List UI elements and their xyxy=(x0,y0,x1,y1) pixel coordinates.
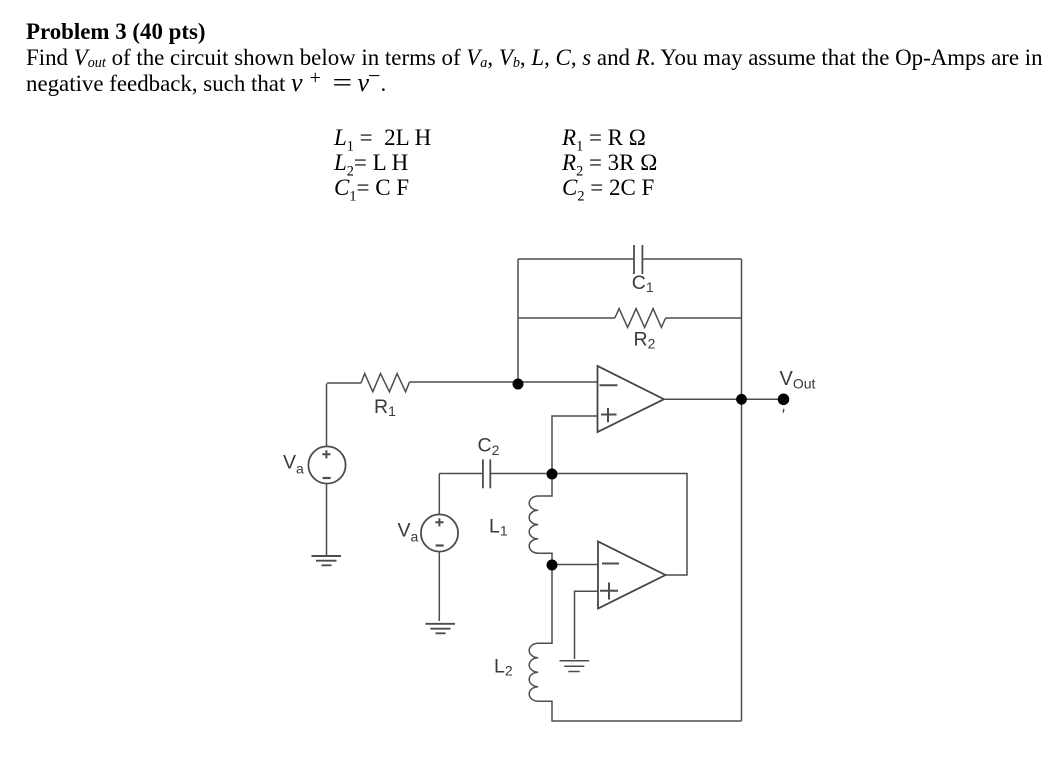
svg-text:Va: Va xyxy=(398,519,419,544)
svg-text:VOut: VOut xyxy=(780,368,816,392)
svg-text:C1: C1 xyxy=(632,272,654,295)
svg-text:L2: L2 xyxy=(494,656,513,679)
svg-text:R1: R1 xyxy=(374,396,396,419)
svg-text:R2: R2 xyxy=(634,329,656,352)
svg-text:L1: L1 xyxy=(489,516,508,539)
svg-text:Va: Va xyxy=(283,452,304,477)
svg-text:C2: C2 xyxy=(478,435,500,458)
